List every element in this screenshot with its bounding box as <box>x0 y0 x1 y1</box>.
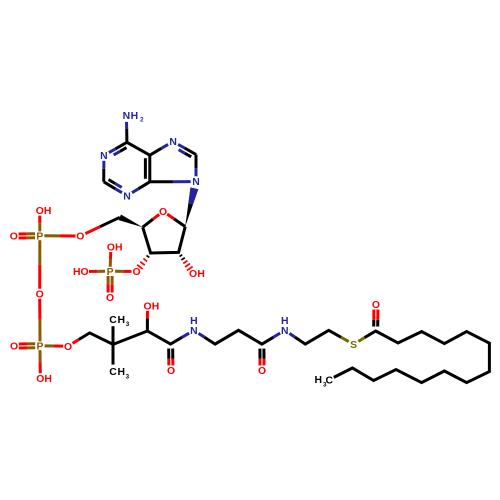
bond O3prime-P3 <box>123 270 131 273</box>
svg-text:O: O <box>143 302 151 313</box>
thioester double bond C1=O <box>376 320 379 327</box>
svg-text:O: O <box>372 300 380 311</box>
svg-text:O: O <box>107 243 115 254</box>
double bond Palpha=O left <box>19 236 27 239</box>
svg-text:H: H <box>281 316 289 327</box>
svg-text:H: H <box>117 367 125 378</box>
ribose ring bonds C1prime-C2prime-C3prime-C4prime <box>143 227 186 253</box>
svg-text:H: H <box>197 269 205 280</box>
bond Cq-CH3 top <box>112 326 115 344</box>
bond Pbeta-O ester <box>45 344 54 347</box>
svg-text:H: H <box>115 243 123 254</box>
bond Palpha-OH up <box>38 223 41 231</box>
svg-text:H: H <box>314 375 322 386</box>
cysteamine backbone CH2c-CH2d <box>295 330 341 344</box>
svg-text:O: O <box>159 207 167 218</box>
bond Pbeta-OH down <box>39 350 42 362</box>
adenine ring bond C4=C5 (double) <box>148 155 151 182</box>
svg-text:N: N <box>190 326 198 337</box>
double bond Camide1=O <box>167 349 170 359</box>
svg-text:N: N <box>123 111 131 122</box>
svg-text:O: O <box>106 293 114 304</box>
bond CH2d-S (olive half) <box>341 337 349 341</box>
adenine amine bond NH2-C6 <box>125 122 128 129</box>
adenine ring bond C2=N3 (double) <box>104 182 116 189</box>
adenine ring bond C5-N7 <box>150 148 162 155</box>
bond O5prime-P alpha <box>44 234 60 237</box>
ribose ring bond O4-C4prime <box>153 214 159 219</box>
svg-text:O: O <box>132 267 140 278</box>
svg-text:3: 3 <box>126 373 130 380</box>
bond C5prime-O5prime <box>100 217 120 226</box>
svg-text:C: C <box>109 367 117 378</box>
bond HO-P3 left <box>89 270 97 273</box>
svg-text:3: 3 <box>126 321 130 328</box>
svg-text:O: O <box>36 206 44 217</box>
svg-text:H: H <box>44 206 52 217</box>
bond N1-CH2a (blue half) <box>199 333 205 337</box>
svg-text:H: H <box>117 315 125 326</box>
ribose hash wedge C2prime-OH <box>178 252 180 253</box>
adenine ring bond N9-C4 <box>173 180 191 183</box>
svg-text:H: H <box>44 374 52 385</box>
svg-text:O: O <box>36 289 44 300</box>
svg-text:N: N <box>192 177 200 188</box>
svg-text:H: H <box>131 111 139 122</box>
svg-text:N: N <box>281 326 289 337</box>
bond CHOH-OH up <box>146 318 149 331</box>
svg-text:H: H <box>190 316 198 327</box>
svg-text:N: N <box>123 191 131 202</box>
adenine ring bond N1-C2 <box>102 161 105 169</box>
bond O ester-CH2 <box>73 340 79 344</box>
beta-alanine backbone CH2a-CH2b-C carbonyl2 <box>205 330 274 344</box>
svg-text:C: C <box>325 375 333 386</box>
pantoate backbone CH2-Cq-CHOH-C carbonyl <box>79 331 182 344</box>
bond P3-OH up <box>109 259 112 267</box>
ribose hash wedge C3prime-O3prime <box>150 252 152 253</box>
svg-text:O: O <box>76 232 84 243</box>
double bond Camide2=O <box>258 349 261 359</box>
svg-text:2: 2 <box>140 117 144 124</box>
adenine ring bond N7=C8 (double) <box>178 144 185 148</box>
bond N2-CH2c (blue half) <box>289 333 295 337</box>
bond Palpha-O bridge <box>38 240 41 265</box>
adenine ring bond C8-N9 <box>195 155 198 169</box>
svg-text:O: O <box>258 366 266 377</box>
svg-text:O: O <box>189 269 197 280</box>
acyl chain backbone C1 to C14 (myristoyl zig-zag) <box>334 331 490 383</box>
bond Camide2-N2 (blue half) <box>273 333 280 337</box>
double bond Pbeta=O left <box>19 346 27 349</box>
svg-text:O: O <box>64 342 72 353</box>
svg-text:S: S <box>350 340 357 351</box>
thioester bond S-C1 (olive half) <box>358 338 364 342</box>
svg-text:H: H <box>73 267 81 278</box>
double bond P3=O down <box>107 276 110 284</box>
svg-text:O: O <box>36 374 44 385</box>
svg-text:H: H <box>152 302 160 313</box>
svg-text:O: O <box>10 342 18 353</box>
glycosidic wedge bond N9-C1prime <box>185 188 198 227</box>
svg-text:N: N <box>100 151 108 162</box>
ribose ring bond O4-C1prime <box>167 214 174 219</box>
svg-text:O: O <box>10 232 18 243</box>
bond Camide1-N1 (blue half) <box>182 333 189 337</box>
bond O bridge-P beta <box>38 299 41 320</box>
adenine ring bond C6=N1 (double) <box>115 142 127 149</box>
adenine ring bond N3-C4 <box>132 189 138 193</box>
adenine ring bond C5-C6 <box>127 142 150 155</box>
svg-text:N: N <box>169 137 177 148</box>
ribose wedge bond C4prime-C5prime <box>119 215 143 228</box>
svg-text:O: O <box>81 267 89 278</box>
svg-text:C: C <box>109 315 117 326</box>
svg-text:O: O <box>167 366 175 377</box>
bond Cq-CH3 bottom <box>112 344 115 364</box>
